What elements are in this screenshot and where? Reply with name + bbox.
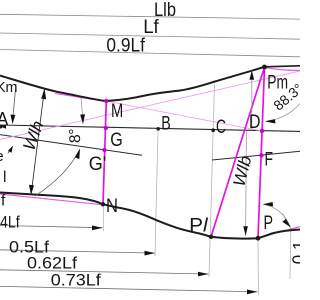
svg-text:G: G [110, 130, 123, 151]
point Pl [209, 235, 213, 239]
point A dot at edge [0, 125, 3, 129]
upper body profile curve [0, 67, 265, 101]
svg-text:0.9Lf: 0.9Lf [106, 35, 145, 56]
thin pink construction line M to D [106, 101, 262, 131]
point G' [102, 148, 106, 152]
svg-text:C: C [216, 117, 226, 138]
magenta vertical M-G-G'-N [103, 101, 106, 205]
svg-text:M: M [111, 101, 123, 122]
upper profile black tail segment [265, 66, 301, 67]
point F [259, 153, 263, 157]
svg-text:Lf: Lf [143, 17, 159, 38]
svg-text:8°: 8° [67, 128, 85, 144]
extension line under P [257, 240, 260, 295]
dimension line 0.62Lf with right arrow [0, 270, 209, 274]
dimension line Lf [0, 33, 300, 39]
small leader arrow near left edge label [8, 147, 12, 153]
Wlh dimension line with two arrows [31, 89, 45, 196]
leader with down arrow onto axis at x 82 [81, 98, 83, 115]
pink tail curve beyond Pm [265, 68, 301, 71]
lower body profile curve [0, 193, 300, 239]
thin pink construction line rising to tail [0, 71, 300, 140]
svg-text:N: N [106, 196, 118, 217]
svg-text:0.62Lf: 0.62Lf [27, 253, 77, 272]
svg-text:Km: Km [0, 79, 18, 96]
svg-text:D: D [249, 112, 261, 133]
svg-text:0.73Lf: 0.73Lf [51, 271, 101, 290]
axis line A-G-B-C-D [0, 125, 300, 131]
svg-text:G': G' [89, 154, 107, 175]
8-degree line through G' [0, 135, 142, 156]
pink chord Pl to P [211, 238, 258, 239]
extension line under B [155, 130, 158, 256]
svg-text:Pl: Pl [189, 216, 208, 237]
pink tail line from P to edge [258, 227, 300, 238]
point P [256, 236, 261, 241]
Wlb dimension vertical with down arrow [245, 132, 248, 236]
arrow on axis at left edge [0, 125, 6, 129]
pink chord on upper profile left of M [55, 94, 106, 102]
point B [156, 127, 160, 131]
svg-text:0,1: 0,1 [289, 240, 300, 264]
point N [101, 202, 105, 206]
point C [211, 128, 215, 132]
svg-text:e: e [0, 149, 4, 165]
gray vertical with up arrow under Pm [251, 70, 253, 131]
svg-text:Pm: Pm [267, 72, 288, 93]
extension line tail upper [283, 214, 291, 229]
pink chord on lower profile left of N [0, 194, 103, 205]
magenta line Pm-Pl [211, 67, 265, 237]
short leader with down arrow at A [13, 84, 16, 116]
arc for 8 degree angle with up arrow [35, 150, 80, 196]
angle arc 88.3 with left arrow at D line [266, 104, 300, 122]
svg-text:f: f [1, 193, 6, 210]
svg-text:0.4Lf: 0.4Lf [0, 212, 20, 231]
dimension line Llb [0, 14, 300, 19]
point D [260, 129, 264, 133]
point Pm [262, 65, 267, 70]
dimension line 0.9Lf [0, 50, 300, 57]
svg-text:A: A [0, 108, 9, 129]
svg-text:P: P [264, 213, 274, 234]
point M [104, 99, 108, 103]
svg-text:l: l [3, 169, 6, 186]
angle arc at P with two arrows [263, 204, 290, 227]
magenta line Pm-D-F-P [258, 67, 265, 238]
extension line through C and Pl [209, 84, 215, 277]
dimension line 0.5Lf with right arrow [0, 250, 155, 253]
extension line under N [102, 206, 104, 231]
point G [104, 126, 108, 130]
extension line tail lower [289, 231, 292, 279]
slant line through F [212, 151, 300, 160]
dimension line 0.73Lf with right arrow [0, 286, 258, 291]
dimension line 0.4Lf with right arrow [0, 226, 103, 228]
svg-text:B: B [161, 113, 171, 134]
svg-text:F: F [265, 149, 274, 170]
